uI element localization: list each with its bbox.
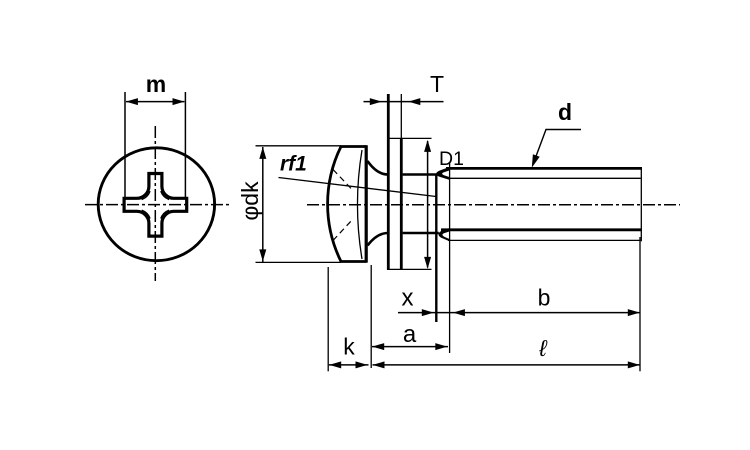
recess inner fillet arc top-right [161, 191, 169, 199]
neck line lower right of washer [403, 232, 439, 235]
extension line thread runout (thick) [435, 174, 437, 322]
svg-text:k: k [343, 334, 355, 360]
x arrow right [453, 309, 465, 316]
k arrow left [329, 361, 341, 368]
lower thread runout fork [439, 228, 451, 242]
hidden recess flank upper (dashed) [333, 170, 353, 191]
svg-text:d: d [558, 99, 572, 125]
washer left face (with T extension above) [387, 94, 390, 270]
upper thread runout fork [436, 167, 450, 180]
svg-text:ℓ: ℓ [538, 335, 548, 361]
svg-text:x: x [402, 285, 414, 312]
vertical centerline of front view [154, 126, 156, 281]
m extension line left [124, 92, 126, 198]
neck fillet top [368, 161, 389, 175]
svg-text:φdk: φdk [237, 181, 263, 221]
a arrow right [435, 343, 447, 350]
extension line head left [327, 267, 329, 371]
T extension right (thin) [400, 94, 402, 138]
phi-dk arrow bottom [259, 249, 266, 261]
phillips recess cross outline [124, 174, 187, 237]
rf1 leader line [279, 178, 437, 197]
extension line shaft end [639, 237, 641, 371]
extension line bearing face [370, 265, 372, 368]
T arrow right [408, 98, 420, 105]
horizontal centerline of front view [85, 204, 231, 206]
washer top edge / D1 top extension [387, 137, 432, 139]
x/b dimension line [398, 312, 640, 314]
thread crest line bottom (thin) [448, 239, 641, 241]
head bearing face line [365, 145, 368, 262]
phi-dk extension bottom [256, 261, 342, 263]
d leader arrow [532, 154, 540, 167]
shaft end face [640, 167, 642, 241]
svg-text:rf1: rf1 [280, 153, 307, 176]
x arrow left [422, 309, 434, 316]
svg-text:b: b [538, 285, 551, 311]
thread root line top [450, 177, 641, 179]
svg-text:T: T [430, 71, 444, 97]
m dimension line [126, 101, 184, 103]
side view centerline [307, 204, 680, 206]
thread crest line top [446, 167, 642, 170]
washer bottom edge / D1 bottom extension [387, 268, 432, 270]
k arrow right [356, 361, 368, 368]
svg-text:a: a [403, 321, 417, 348]
b arrow right [628, 309, 640, 316]
hidden recess flank lower (dashed) [333, 220, 353, 241]
m arrow right [173, 98, 185, 105]
pan head side outline [328, 147, 367, 262]
neck fillet bottom [368, 233, 389, 246]
D1 arrow bottom [424, 257, 431, 269]
phi-dk extension top [256, 145, 342, 147]
thin arc near bearing face [357, 150, 362, 259]
T dimension line [364, 101, 444, 103]
m extension line right [184, 92, 186, 198]
k dimension line [329, 364, 369, 366]
d leader line [534, 130, 582, 164]
recess inner fillet arc bottom-right [161, 210, 169, 218]
a dimension line [372, 346, 448, 348]
l arrow left [373, 361, 385, 368]
phi-dk dimension line [262, 147, 264, 262]
neck line upper right of washer [403, 173, 437, 176]
l dimension line [373, 364, 640, 366]
T arrow left [370, 98, 382, 105]
thread root line bottom (thick) [441, 228, 642, 231]
phi-dk arrow top [259, 147, 266, 159]
svg-text:m: m [146, 71, 166, 97]
svg-text:D1: D1 [439, 148, 464, 170]
washer right face [400, 138, 403, 269]
D1 arrow top [424, 140, 431, 152]
extension line full-thread start [449, 162, 451, 353]
m arrow left [126, 98, 138, 105]
recess inner fillet arc bottom-left [142, 210, 150, 218]
recess inner fillet arc top-left [142, 191, 150, 199]
l arrow right [628, 361, 640, 368]
a arrow left [372, 343, 384, 350]
D1 dimension line [427, 141, 429, 268]
head front view circle [98, 148, 214, 261]
